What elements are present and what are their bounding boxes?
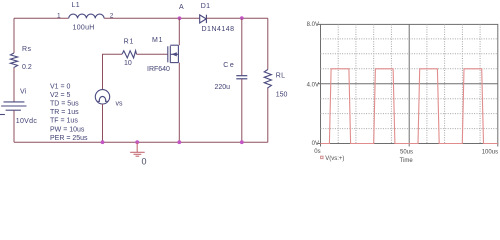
svg-text:V1 = 0: V1 = 0 — [50, 83, 71, 90]
dc source Vi battery plates — [0, 102, 27, 115]
svg-text:150: 150 — [276, 91, 288, 98]
svg-text:V(vs:+): V(vs:+) — [325, 156, 344, 162]
svg-text:50us: 50us — [400, 150, 413, 156]
wire bottom rail — [14, 141, 268, 143]
svg-text:PW = 10us: PW = 10us — [50, 126, 85, 133]
wire top rail middle — [104, 17, 199, 19]
plot solid gridline 50us — [408, 24, 410, 143]
resistor RL — [264, 70, 271, 89]
svg-text:D1N4148: D1N4148 — [202, 26, 235, 33]
wire vs bottom — [102, 104, 104, 142]
vpulse params — [50, 83, 88, 142]
mosfet body arrow — [171, 52, 176, 56]
wire RL bottom — [267, 89, 269, 143]
capacitor Ce — [236, 76, 247, 79]
svg-text:10: 10 — [124, 60, 132, 67]
waveform trace — [321, 69, 498, 144]
wire RL top — [267, 18, 269, 69]
wire M1 drain up — [178, 18, 180, 45]
wire left rail upper — [13, 18, 15, 53]
wire left rail lower — [13, 110, 15, 142]
junction ground — [135, 140, 139, 144]
legend marker — [321, 156, 323, 158]
plot dotted vertical gridlines — [338, 24, 480, 143]
wire left rail middle — [13, 68, 15, 102]
svg-text:vs: vs — [116, 101, 124, 108]
svg-text:D1: D1 — [201, 3, 211, 10]
svg-text:V2 = 5: V2 = 5 — [50, 92, 71, 99]
mosfet M1 — [168, 45, 179, 63]
svg-text:Ce: Ce — [223, 62, 235, 69]
svg-text:Time: Time — [400, 158, 414, 164]
diode D1 — [200, 15, 207, 23]
wire vs top to R1 — [103, 54, 123, 89]
wire top rail left — [14, 17, 69, 19]
plot dotted horizontal gridlines — [321, 39, 498, 129]
junction Ce bottom — [240, 140, 244, 144]
wire Ce top — [241, 18, 243, 75]
svg-text:0s: 0s — [314, 149, 320, 155]
junction node A — [178, 16, 182, 20]
wire M1 source down — [178, 63, 180, 143]
svg-text:M1: M1 — [152, 37, 163, 44]
plot border — [321, 24, 498, 143]
wire R1 to gate — [137, 53, 168, 55]
ground 0 — [130, 142, 145, 156]
wire top rail right — [207, 17, 268, 19]
svg-text:TD = 5us: TD = 5us — [50, 101, 79, 108]
svg-text:IRF640: IRF640 — [147, 66, 170, 73]
svg-text:0V: 0V — [312, 141, 319, 147]
svg-text:R1: R1 — [124, 38, 135, 45]
resistor Rs — [10, 53, 17, 68]
wire Ce bottom — [241, 79, 243, 142]
pulse source vs circle — [95, 90, 109, 104]
svg-text:220u: 220u — [215, 84, 231, 91]
junction vs bottom — [101, 140, 105, 144]
inductor L1 — [69, 14, 104, 18]
svg-text:0: 0 — [142, 157, 147, 167]
svg-text:TF = 1us: TF = 1us — [50, 118, 78, 125]
svg-text:Vi: Vi — [20, 89, 27, 96]
svg-text:8.0V: 8.0V — [307, 22, 319, 28]
svg-text:100us: 100us — [482, 150, 498, 156]
svg-text:4.0V: 4.0V — [307, 82, 319, 88]
svg-text:TR = 1us: TR = 1us — [50, 109, 79, 116]
svg-text:A: A — [179, 4, 184, 11]
junction M1 source — [177, 140, 181, 144]
svg-text:100uH: 100uH — [73, 24, 95, 31]
svg-text:L1: L1 — [72, 2, 81, 9]
plot solid gridline 4.0V — [321, 83, 498, 85]
svg-text:RL: RL — [276, 73, 286, 80]
svg-text:0.2: 0.2 — [22, 64, 32, 71]
svg-text:Rs: Rs — [22, 46, 31, 53]
junction Ce top — [240, 16, 244, 20]
svg-text:10Vdc: 10Vdc — [16, 118, 38, 125]
svg-text:PER = 25us: PER = 25us — [50, 135, 88, 142]
axis ticks — [318, 24, 498, 146]
svg-text:1: 1 — [57, 13, 61, 20]
resistor R1 — [122, 51, 137, 58]
